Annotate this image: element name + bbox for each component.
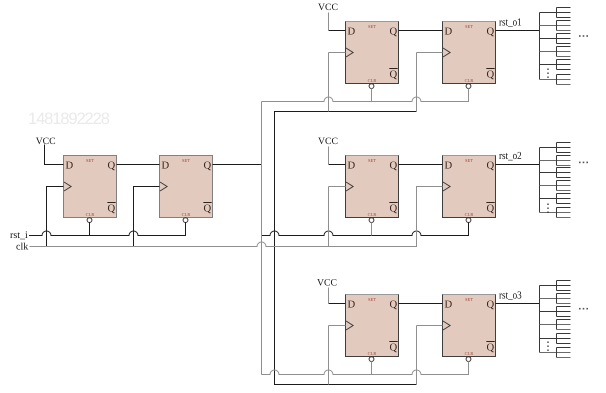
svg-text:VCC: VCC (318, 2, 338, 13)
svg-text:VCC: VCC (36, 136, 56, 147)
svg-text:1481892228: 1481892228 (28, 110, 110, 128)
svg-text:clk: clk (16, 242, 28, 253)
svg-text:rst_o3: rst_o3 (499, 289, 522, 301)
svg-text:VCC: VCC (317, 278, 337, 289)
svg-text:rst_o1: rst_o1 (499, 17, 522, 29)
svg-text:rst_i: rst_i (10, 230, 28, 241)
svg-text:rst_o2: rst_o2 (499, 150, 522, 162)
svg-text:VCC: VCC (318, 136, 338, 147)
